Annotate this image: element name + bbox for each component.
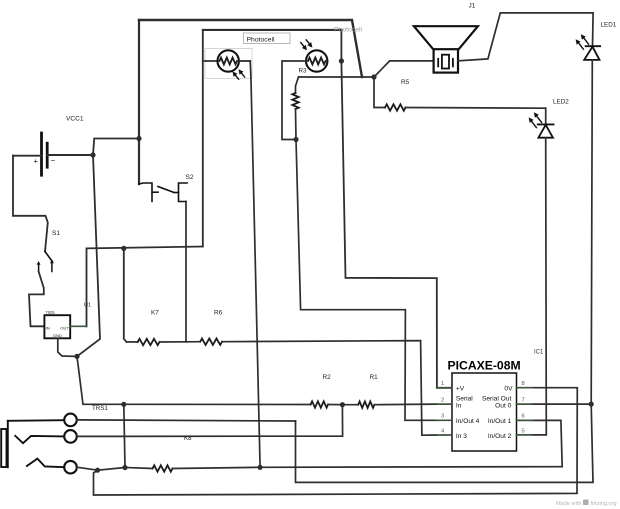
- wire ground node diagonal to R2 rail: [77, 356, 124, 404]
- resistor K7 label: [151, 310, 159, 317]
- resistor K8 label: [184, 435, 192, 442]
- wire TRS sleeve to sleeve-rail node: [77, 467, 98, 470]
- wire from VCC junction down to K7 line: [124, 248, 127, 342]
- LED1 label: [601, 22, 617, 29]
- svg-text:R2: R2: [323, 374, 332, 381]
- svg-text:Serial: Serial: [456, 395, 473, 402]
- node junction LDR1-bottom at (260.1,467.3): [258, 465, 263, 470]
- LED D1 symbol: [584, 46, 600, 60]
- wire K8 line to pin6: [260, 420, 562, 467]
- svg-text:Photocell: Photocell: [334, 26, 362, 33]
- resistor R2: [124, 401, 343, 407]
- svg-text:IC1: IC1: [534, 350, 544, 356]
- node junction GND/R2-rail at (123.8,404.3): [121, 402, 126, 407]
- node A junction battery-plus rail at (139,138.5): [93, 136, 142, 155]
- IC1 PICAXE-08M body: [452, 373, 517, 451]
- svg-text:J1: J1: [469, 3, 476, 10]
- wire battery right lead: [47, 154, 93, 156]
- wire LED1 cathode down to pin7 junction: [591, 60, 592, 404]
- wire speaker right lead up to LED1: [458, 13, 593, 61]
- wire S2 output down to K7/R6 line: [185, 202, 187, 342]
- speaker J1 symbol: [414, 26, 478, 72]
- wire speaker left lead from node: [374, 61, 434, 77]
- svg-text:R3: R3: [299, 68, 307, 75]
- svg-text:In: In: [456, 403, 462, 410]
- wire pin7 junction down and bottom rail to TRS tip riser: [296, 404, 594, 482]
- svg-text:−: −: [51, 156, 56, 165]
- node junction on VCC line at (123.8,248.4): [121, 246, 126, 251]
- node pin7 junction at (591.2,404.1): [589, 402, 594, 407]
- wire photocell left vertical down to VCC net: [202, 30, 204, 247]
- svg-text:PICAXE-08M: PICAXE-08M: [448, 359, 521, 373]
- regulator U1 label: [84, 302, 91, 308]
- wire sleeve node down to bottom ground rail then to pin8 riser: [94, 388, 578, 495]
- LED2 label: [553, 99, 569, 106]
- photocell LDR1: [203, 50, 250, 71]
- resistor R1 label: [370, 374, 379, 381]
- photocell LDR1 light arrows: [232, 69, 244, 79]
- svg-text:2: 2: [441, 398, 444, 404]
- speaker J1 label: [469, 3, 476, 10]
- svg-text:LED2: LED2: [553, 99, 569, 106]
- wire vertical from top rail down to switch S2 left: [138, 20, 140, 184]
- LED D2 symbol: [538, 108, 554, 138]
- svg-text:5: 5: [522, 428, 525, 434]
- switch S1 blade and contacts: [37, 252, 54, 272]
- wire LDR1 down long slant to sleeve rail: [250, 61, 260, 467]
- node ground junction at (77,356.4): [74, 354, 79, 359]
- svg-text:7805: 7805: [45, 310, 55, 315]
- svg-text:In/Out 2: In/Out 2: [488, 433, 512, 440]
- wire battery-minus slant down to ground node: [77, 155, 100, 356]
- resistor R5: [374, 77, 546, 111]
- wire y77 net R3-top to speaker node: [299, 76, 375, 78]
- wire junction down to sleeve rail: [124, 404, 125, 467]
- svg-text:IN: IN: [46, 325, 50, 330]
- svg-text:Made with: Made with: [556, 501, 582, 507]
- photocell selection frame: [205, 49, 252, 79]
- wire VCC horizontal from U1-OUT riser to photocell-left vertical: [87, 247, 203, 327]
- svg-text:R5: R5: [401, 79, 410, 86]
- svg-text:K7: K7: [151, 310, 159, 317]
- wire pin7 to LED1 junction: [532, 403, 591, 405]
- node sleeve junction at (97.5,470.2): [95, 468, 100, 473]
- TRS1 plug body: [1, 421, 8, 468]
- svg-text:Photocell: Photocell: [247, 36, 275, 43]
- node B junction R3-bottom at (296,139.5): [293, 137, 298, 142]
- fritzing watermark: [556, 500, 617, 508]
- resistor R2 label: [323, 374, 332, 381]
- svg-text:1: 1: [441, 381, 444, 387]
- node junction K8-left at (125,467.5): [122, 465, 127, 470]
- photocell LDR2 light arrows: [301, 40, 313, 51]
- wire U1 GND lead down to ground node: [58, 338, 77, 356]
- svg-text:VCC1: VCC1: [66, 116, 84, 123]
- svg-text:OUT: OUT: [60, 325, 69, 330]
- TRS1 label: [92, 405, 108, 412]
- resistor R6: [186, 339, 437, 436]
- svg-text:8: 8: [522, 381, 525, 387]
- node junction LDR2-right at (341.4,61): [339, 58, 344, 63]
- resistor K7: [127, 339, 187, 345]
- svg-text:6: 6: [522, 414, 525, 420]
- IC1 pin numbers: [441, 381, 525, 434]
- wire from battery-plus down-around to S1: [13, 156, 48, 252]
- wire LDR2 left lead down to node B: [282, 61, 306, 140]
- svg-text:In/Out 4: In/Out 4: [456, 418, 480, 425]
- svg-text:7: 7: [522, 398, 525, 404]
- svg-text:In/Out 1: In/Out 1: [488, 418, 512, 425]
- wire photocell top rail: [203, 29, 342, 31]
- resistor R6 label: [214, 310, 223, 317]
- svg-text:Serial Out: Serial Out: [482, 395, 511, 402]
- LED D2 light arrows: [529, 112, 542, 127]
- photocell LDR2 designator R3: [299, 68, 307, 75]
- svg-text:3: 3: [441, 414, 444, 420]
- TRS1 tip contact and terminal: [8, 414, 77, 427]
- svg-text:In 3: In 3: [456, 433, 467, 440]
- TRS1 sleeve contact and terminal: [27, 459, 77, 474]
- regulator U1 box: [44, 315, 70, 338]
- node junction R2/R1 at (342.4,404.7): [340, 402, 345, 407]
- wire top rail from node A to photocell-right slant: [139, 20, 362, 77]
- node speaker junction at (374,77): [371, 74, 376, 79]
- node battery-minus junction at (93,155): [90, 152, 95, 157]
- resistor R5 label: [401, 79, 410, 86]
- svg-text:fritzing.org: fritzing.org: [591, 501, 617, 507]
- IC1 pin stubs 1-8: [437, 388, 533, 435]
- svg-text:+: +: [34, 157, 39, 166]
- IC1 label: [534, 350, 544, 356]
- battery VCC1 plates: [34, 133, 56, 175]
- svg-text:LED1: LED1: [601, 22, 617, 29]
- photocell label box: [244, 33, 291, 44]
- wire battery left lead: [13, 155, 42, 157]
- regulator U1 7805 value label: [45, 310, 55, 315]
- svg-text:0V: 0V: [504, 386, 513, 393]
- wire photocell right vertical down to +V corner: [341, 30, 452, 388]
- svg-text:TRS1: TRS1: [92, 405, 108, 412]
- wire TRS tip to bottom-rail riser: [77, 420, 296, 421]
- switch S2 symbol: [139, 183, 187, 202]
- wire from S1 bottom to U1 IN: [29, 272, 44, 327]
- resistor K8: [98, 465, 261, 471]
- switch S1 label: [52, 230, 60, 237]
- svg-text:+V: +V: [456, 386, 465, 393]
- op-amp U?: PICAXE-08M title: [448, 359, 521, 373]
- svg-text:R1: R1: [370, 374, 379, 381]
- wire TRS ring to R1/R2 junction: [77, 405, 343, 437]
- svg-text:Out 0: Out 0: [495, 403, 511, 410]
- svg-text:U1: U1: [84, 302, 91, 308]
- battery VCC1 label: [66, 116, 84, 123]
- LED D1 light arrows: [576, 34, 589, 49]
- switch S2 label: [186, 174, 194, 181]
- wire node B down to pin3 riser: [296, 140, 437, 421]
- photocell LDR2: [306, 50, 327, 71]
- svg-text:K8: K8: [184, 435, 192, 442]
- photocell label gray: [334, 26, 362, 33]
- IC1 pin labels: [456, 386, 513, 440]
- wire LED2 cathode down to pin5: [532, 138, 546, 435]
- resistor R3 vertical: [292, 77, 298, 140]
- svg-text:R6: R6: [214, 310, 223, 317]
- TRS1 ring contact and terminal: [15, 430, 76, 443]
- svg-text:S1: S1: [52, 230, 60, 237]
- svg-text:S2: S2: [186, 174, 194, 181]
- resistor R1: [342, 402, 436, 408]
- wire U1 OUT lead: [70, 325, 86, 327]
